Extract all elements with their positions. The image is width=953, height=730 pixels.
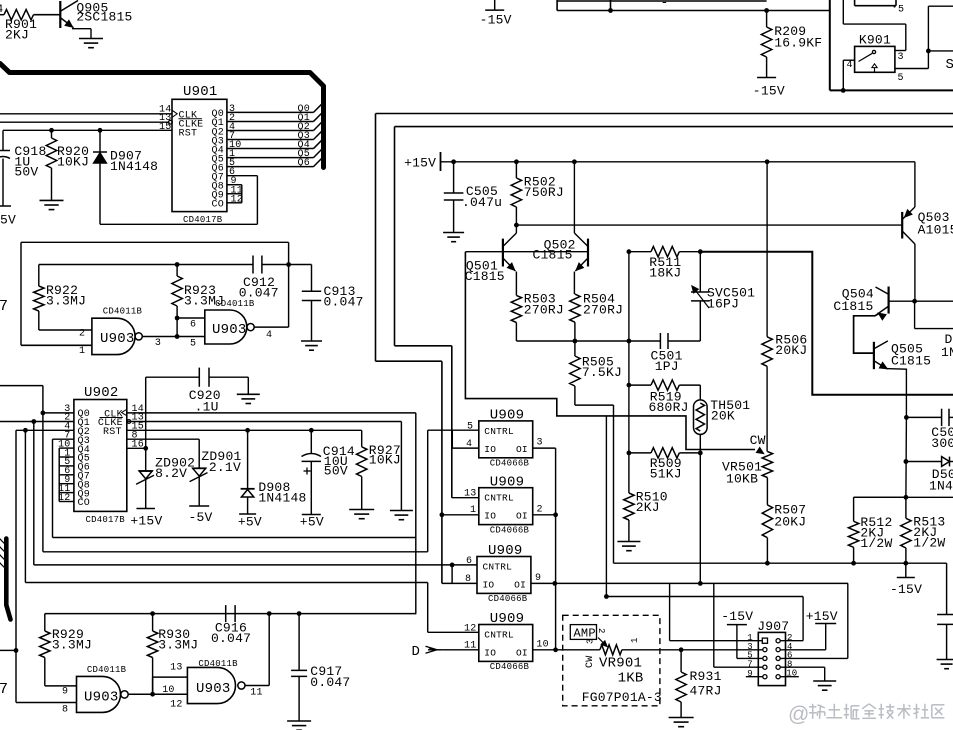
svg-text:CW: CW — [585, 656, 596, 668]
analog switch U909 #1 CD4066B — [479, 421, 533, 458]
svg-text:C1815: C1815 — [891, 354, 931, 369]
varicap SVC501 16PJ — [699, 252, 701, 292]
svg-text:C1815: C1815 — [465, 269, 505, 284]
wire U902 Q1 net from left edge — [0, 421, 74, 423]
svg-text:VR901: VR901 — [599, 656, 642, 672]
wire border net branch to J907 pin2 — [605, 416, 607, 597]
wire U903c output pin10 to U903d — [128, 693, 187, 695]
dashed module box FG07P01A-3 — [563, 615, 660, 706]
thick bus bottom-left with taps — [6, 539, 10, 620]
svg-text:CD4066B: CD4066B — [490, 459, 530, 469]
svg-text:U903: U903 — [84, 690, 119, 706]
wire TH501 R509 node down to pin9 row — [699, 453, 701, 584]
wire -15V rail bottom — [614, 562, 947, 564]
analog switch U909 #4 CD4066B — [479, 625, 533, 662]
wire U902 Q2 net — [0, 649, 16, 651]
transistor Q504 C1815 — [887, 287, 889, 314]
ground for C505 — [443, 232, 464, 234]
svg-text:Q6: Q6 — [298, 158, 310, 169]
svg-text:9: 9 — [535, 573, 541, 584]
svg-text:CNTRL: CNTRL — [484, 493, 514, 504]
wire K901 pin3 — [895, 50, 906, 52]
svg-text:K901: K901 — [859, 33, 891, 48]
svg-text:8: 8 — [62, 705, 68, 716]
wire U903b feedback top — [21, 241, 289, 243]
wire U903a pin1 — [21, 344, 92, 346]
svg-text:-5V: -5V — [189, 510, 213, 525]
svg-text:C1815: C1815 — [833, 299, 873, 314]
svg-text:CO: CO — [78, 498, 90, 509]
svg-text:+5V: +5V — [238, 515, 262, 530]
svg-text:OI: OI — [516, 444, 528, 455]
svg-text:13: 13 — [464, 489, 476, 500]
svg-text:9: 9 — [747, 669, 753, 679]
svg-text:1: 1 — [470, 505, 476, 516]
wire U903d pin13 stub — [152, 677, 154, 694]
svg-text:3: 3 — [586, 638, 596, 644]
wire U909#2 pin13 CNTRL — [452, 497, 479, 499]
svg-text:0.047: 0.047 — [310, 675, 350, 690]
resistor R507 20KJ — [766, 478, 768, 505]
svg-text:CW: CW — [750, 433, 766, 448]
relay K901 box — [855, 46, 895, 72]
svg-text:U909: U909 — [490, 474, 525, 490]
svg-text:1N41: 1N41 — [929, 479, 953, 494]
svg-text:1N4148: 1N4148 — [110, 159, 158, 174]
svg-text:11: 11 — [250, 688, 262, 699]
wire U909#3 pin8 IO — [442, 582, 477, 584]
wire U902 RST pin15 row — [127, 429, 362, 431]
svg-text:12: 12 — [170, 700, 182, 711]
resistor R512 2KJ 1/2W — [853, 497, 855, 521]
wire U909#4 pin11 IO — [442, 649, 479, 651]
ground for R931 — [669, 717, 694, 719]
svg-text:CNTRL: CNTRL — [483, 562, 513, 573]
thick wire bus Q0-Q6 top-left — [0, 64, 324, 168]
svg-text:FG07P01A-3: FG07P01A-3 — [582, 690, 662, 705]
supply -5V for C918 — [0, 205, 11, 207]
svg-text:2: 2 — [537, 505, 543, 516]
wire U903d output pin11 — [245, 685, 269, 687]
capacitor C920 .1U — [145, 377, 147, 448]
wire U909#1 pin4 IO stub — [451, 430, 453, 448]
ground bottom right corner — [937, 659, 953, 661]
svg-text:IO: IO — [484, 511, 496, 522]
U901 pins 9 11 12 tied — [227, 184, 242, 186]
svg-text:50V: 50V — [14, 165, 38, 180]
wire U909#1 pin3 OI to bus — [533, 447, 556, 449]
transistor Q505 C1815 — [873, 342, 875, 369]
svg-text:CD4066B: CD4066B — [490, 662, 530, 672]
ground for Q905 — [79, 38, 103, 40]
wire J907 pin8 to ground — [780, 666, 825, 668]
svg-text:3: 3 — [155, 338, 161, 349]
wire U902 Q0 net from left edge — [0, 385, 43, 387]
wire K901 pin4 — [843, 59, 854, 61]
NAND gate U903b CD4011B — [205, 310, 247, 344]
resistor R901 — [0, 14, 4, 16]
wire Q505 emitter node down — [905, 417, 908, 497]
svg-text:750RJ: 750RJ — [524, 185, 564, 200]
svg-text:OI: OI — [514, 580, 526, 591]
svg-text:CD4017B: CD4017B — [86, 515, 126, 525]
svg-text:3.3MJ: 3.3MJ — [46, 293, 86, 308]
wire U909#2 pin2 OI — [533, 514, 556, 516]
supply +5V under D908 — [239, 513, 256, 515]
wire U902 CLK pin14 to oscillator — [127, 412, 416, 414]
U901 pin Q7/6 loop wire — [227, 175, 258, 177]
wire U903b output pin4 — [254, 326, 288, 328]
svg-text:1/2W: 1/2W — [913, 536, 945, 551]
svg-text:2SC1815: 2SC1815 — [76, 9, 132, 24]
wire K901 pin5 — [895, 68, 929, 70]
svg-text:1N: 1N — [941, 345, 953, 360]
svg-text:0.047: 0.047 — [324, 294, 364, 309]
svg-text:7.5KJ: 7.5KJ — [582, 365, 622, 380]
svg-text:CD4066B: CD4066B — [490, 525, 530, 535]
wire U903c pin8 from left — [16, 702, 77, 704]
wire U902 CLKE pin13 to ground — [127, 421, 402, 423]
IC U902 CD4017B — [74, 400, 127, 512]
svg-text:3: 3 — [537, 438, 543, 449]
svg-text:1PJ: 1PJ — [655, 359, 679, 374]
U901 pin CLK 14 — [0, 113, 172, 115]
svg-text:U902: U902 — [84, 385, 119, 401]
capacitor C503 — [904, 415, 909, 420]
thermistor TH501 20K — [694, 400, 708, 435]
NAND gate U903a CD4011B — [92, 318, 135, 354]
ground for R927 — [349, 509, 374, 511]
resistor R510 2KJ — [628, 453, 630, 493]
VR901 wiper arrow — [598, 638, 606, 646]
svg-text:.047u: .047u — [462, 195, 502, 210]
wire net-B inner border top — [395, 126, 953, 128]
svg-text:8: 8 — [465, 574, 471, 585]
relay above K901 partial box — [854, 0, 856, 6]
svg-text:300: 300 — [931, 436, 953, 451]
svg-text:2: 2 — [79, 328, 85, 339]
svg-text:CNTRL: CNTRL — [484, 426, 514, 437]
svg-text:OI: OI — [516, 648, 528, 659]
potentiometer VR901 1KB — [600, 645, 622, 655]
svg-text:4: 4 — [847, 60, 853, 71]
svg-text:3: 3 — [898, 52, 904, 63]
svg-text:270RJ: 270RJ — [524, 302, 564, 317]
ground for R920 — [40, 199, 64, 201]
capacitor C912 0.047 — [252, 256, 254, 274]
wire U903b pin6 — [177, 317, 205, 319]
wire J907 pin5 from -15V — [736, 625, 738, 659]
wire U902 pin8 row — [127, 438, 199, 440]
NAND gate U903d CD4011B — [187, 667, 235, 703]
resistor R927 10KJ — [361, 430, 363, 447]
diode D501 right edge — [904, 459, 909, 464]
svg-text:CD4011B: CD4011B — [87, 665, 127, 675]
svg-text:U903: U903 — [100, 331, 135, 347]
svg-text:16.9KF: 16.9KF — [774, 36, 822, 51]
ground for R510 — [617, 541, 640, 543]
svg-text:1N4148: 1N4148 — [258, 491, 306, 506]
svg-text:-15V: -15V — [753, 84, 785, 99]
svg-text:IO: IO — [483, 580, 495, 591]
svg-text:3.3MJ: 3.3MJ — [52, 637, 92, 652]
zener diode ZD902 8.2V — [145, 448, 147, 471]
wire R502 to Q503 base — [516, 224, 902, 226]
wire Q501 base border net — [465, 252, 755, 450]
svg-text:10: 10 — [536, 640, 548, 651]
svg-text:CD4011B: CD4011B — [198, 659, 238, 669]
svg-text:CD4066B: CD4066B — [488, 594, 528, 604]
svg-text:18KJ: 18KJ — [649, 266, 681, 281]
svg-text:A1015: A1015 — [918, 223, 953, 238]
svg-text:6: 6 — [466, 556, 472, 567]
svg-text:OI: OI — [516, 511, 528, 522]
svg-text:CD4011B: CD4011B — [103, 307, 143, 317]
svg-text:12: 12 — [464, 624, 476, 635]
svg-text:1: 1 — [630, 637, 640, 643]
supply +15V under ZD902 — [136, 508, 155, 510]
svg-text:7: 7 — [0, 681, 8, 698]
transistor Q501 C1815 — [502, 239, 504, 267]
wire J907 pin7 — [713, 583, 715, 667]
wire U909#2 pin1 IO — [442, 514, 479, 516]
wire U909#1 pin5 CNTRL — [428, 429, 479, 431]
svg-text:@: @ — [788, 703, 810, 726]
svg-text:+15V: +15V — [806, 609, 838, 624]
svg-text:-: - — [661, 0, 669, 10]
wire U909#3 pin9 OI long to J907 pin6 riser — [531, 582, 848, 584]
svg-text:J907: J907 — [757, 619, 789, 634]
resistor R922 — [38, 265, 40, 287]
NAND gate U903c CD4011B — [77, 676, 121, 712]
svg-text:3.3MJ: 3.3MJ — [158, 637, 198, 652]
svg-text:7: 7 — [0, 298, 8, 315]
svg-text:4: 4 — [0, 4, 4, 16]
wire U902 pins Q4-CO tied stubs — [59, 447, 74, 449]
svg-text:5: 5 — [190, 338, 196, 349]
vertical net x=628.9 — [628, 252, 630, 453]
capacitor C913 0.047 — [311, 265, 313, 292]
ground for C920 — [237, 393, 260, 395]
svg-text:IO: IO — [484, 444, 496, 455]
wire J907 pin4 from +15V — [780, 649, 826, 651]
svg-text:U903: U903 — [196, 681, 231, 697]
resistor R502 750RJ — [515, 162, 517, 178]
resistor R209 16.9KF — [766, 11, 768, 28]
capacitor C914 10U 50V electrolytic — [310, 430, 312, 453]
resistor R920 — [51, 130, 53, 138]
ground for C913 — [301, 340, 322, 342]
svg-text:6: 6 — [190, 320, 196, 331]
svg-text:IO: IO — [484, 648, 496, 659]
svg-text:U909: U909 — [490, 408, 525, 424]
svg-text:-15V: -15V — [721, 609, 753, 624]
svg-text:CNTRL: CNTRL — [484, 630, 514, 641]
svg-text:2.1V: 2.1V — [209, 460, 241, 475]
svg-text:2: 2 — [596, 628, 606, 634]
U901 output wires Q0-Q6 to bus — [227, 111, 314, 113]
svg-text:0.047: 0.047 — [211, 631, 251, 646]
resistor R504 270RJ — [573, 272, 575, 295]
wire J907 pin2 — [780, 640, 803, 642]
supply -15V top middle — [494, 0, 496, 10]
svg-text:RST: RST — [179, 128, 198, 139]
J907 left pin circles — [763, 648, 767, 652]
supply -15V stub — [905, 563, 907, 577]
J907 right pin circles — [776, 639, 780, 643]
svg-text:10: 10 — [162, 685, 174, 696]
zener diode ZD901 2.1V — [198, 439, 200, 468]
J907 pin1 square — [762, 638, 767, 643]
svg-text:1: 1 — [79, 346, 85, 357]
wire K901 pin5 riser to right edge — [927, 6, 929, 68]
wire J907 pin10 stub — [780, 676, 799, 678]
svg-text:5: 5 — [898, 73, 904, 84]
U901 pin RST 15 — [3, 129, 172, 131]
wire U902 Q3 loop — [53, 438, 74, 440]
svg-text:8.2V: 8.2V — [155, 466, 187, 481]
svg-text:5: 5 — [898, 5, 904, 16]
resistor R509 51KJ — [629, 452, 651, 454]
svg-text:4: 4 — [466, 439, 472, 450]
relay enclosure box left — [829, 0, 831, 90]
transistor Q503 A1015 — [901, 212, 903, 239]
capacitor bottom right corner — [946, 563, 948, 614]
svg-text:5: 5 — [467, 422, 473, 433]
connector J907 — [758, 632, 785, 685]
resistor R506 20KJ — [766, 162, 768, 337]
capacitor C917 0.047 — [298, 614, 300, 671]
svg-text:CD4011B: CD4011B — [215, 299, 255, 309]
wire R512 top to node — [854, 496, 906, 498]
svg-text:15: 15 — [159, 122, 171, 133]
potentiometer VR501 10KB — [762, 452, 772, 478]
svg-text:CD4017B: CD4017B — [183, 215, 223, 225]
wire U903a output pin3 — [142, 336, 205, 338]
svg-text:51KJ: 51KJ — [650, 467, 682, 482]
analog switch U909 #3 CD4066B — [477, 557, 531, 594]
resistor R511 18KJ — [629, 251, 651, 253]
capacitor C918 — [2, 130, 4, 150]
wire R922/R923 row — [39, 264, 253, 266]
svg-text:20K: 20K — [711, 409, 735, 424]
svg-text:9: 9 — [62, 687, 68, 698]
svg-text:+15V: +15V — [404, 156, 436, 171]
svg-text:10KJ: 10KJ — [369, 453, 401, 468]
IC U901 CD4017B — [172, 99, 227, 211]
ground for CLKE wire — [390, 510, 413, 512]
ground for J907 pin8 — [813, 680, 836, 682]
svg-text:.1U: .1U — [195, 400, 219, 415]
resistor R923 — [176, 265, 178, 277]
capacitor C501 1PJ — [629, 340, 661, 342]
svg-text:+5V: +5V — [300, 515, 324, 530]
svg-text:680RJ: 680RJ — [649, 400, 689, 415]
wire relay K901 coil net top — [842, 0, 844, 24]
wire U902 pin16 — [127, 447, 146, 449]
wire J907 pin9 stub — [746, 676, 763, 678]
capacitor C916 0.047 inline — [225, 605, 227, 622]
svg-text:C1815: C1815 — [533, 248, 573, 263]
svg-text:11: 11 — [464, 641, 476, 652]
wire R503 R504 junction row — [516, 340, 629, 342]
svg-text:10KJ: 10KJ — [57, 154, 89, 169]
svg-text:4: 4 — [266, 330, 272, 341]
wire feedback path R511 to right edge — [700, 252, 953, 395]
svg-text:U909: U909 — [488, 543, 523, 559]
supply -15V under R209 — [757, 77, 776, 79]
svg-text:U901: U901 — [183, 84, 218, 100]
svg-text:U903: U903 — [212, 322, 247, 338]
svg-text:50V: 50V — [324, 464, 348, 479]
svg-text:20KJ: 20KJ — [775, 343, 807, 358]
svg-text:CO: CO — [212, 200, 224, 211]
supply -5V under ZD901 — [189, 505, 209, 507]
svg-text:10KB: 10KB — [726, 472, 758, 487]
svg-text:16PJ: 16PJ — [707, 297, 739, 312]
wire net-B inner border left — [394, 127, 396, 346]
svg-text:-15V: -15V — [890, 582, 922, 597]
wire net-A outer border left — [375, 114, 377, 362]
supply +15V rail — [440, 152, 442, 171]
supply -15V above J907 — [727, 624, 747, 626]
svg-text:1KB: 1KB — [618, 671, 644, 687]
supply +15V above J907 — [815, 623, 836, 625]
resistor R929 3.3MJ — [44, 614, 46, 631]
capacitor C505 .047u — [453, 162, 455, 193]
wire J907 pin1 — [669, 583, 671, 640]
transistor Q905 — [59, 1, 61, 28]
svg-text:U909: U909 — [490, 611, 525, 627]
svg-text:2KJ: 2KJ — [636, 500, 660, 515]
U901 pin CLKE 13 — [0, 121, 169, 123]
svg-text:-15V: -15V — [480, 13, 512, 28]
relay K901 contacts — [872, 50, 875, 53]
op-amp box bottom edge top area — [557, 0, 767, 2]
diode D907 1N4148 — [99, 130, 101, 152]
svg-text:20KJ: 20KJ — [774, 515, 806, 530]
supply +5V under C914 — [302, 514, 321, 516]
svg-text:D: D — [412, 644, 421, 660]
analog switch U909 #2 CD4066B — [479, 488, 533, 525]
svg-text:2KJ: 2KJ — [5, 28, 29, 43]
resistor R505 7.5KJ — [574, 341, 576, 356]
resistor R503 270RJ — [515, 272, 517, 296]
wire J907 pin6 riser — [780, 657, 848, 659]
svg-text:5V: 5V — [0, 213, 16, 228]
wire U909#4 pin10 OI to VR901 — [533, 649, 600, 651]
svg-text:+15V: +15V — [130, 514, 162, 529]
transistor Q502 C1815 — [587, 239, 589, 267]
svg-text:RST: RST — [103, 427, 122, 438]
resistor R519 680RJ — [629, 384, 651, 386]
svg-text:270RJ: 270RJ — [583, 302, 623, 317]
resistor R930 3.3MJ — [152, 614, 154, 631]
ground for C917 — [287, 720, 311, 722]
svg-text:1/2W: 1/2W — [860, 536, 892, 551]
svg-text:R931: R931 — [690, 669, 722, 684]
resistor R513 2KJ 1/2W — [905, 497, 907, 518]
svg-text:13: 13 — [170, 663, 182, 674]
AMP label box — [570, 625, 596, 640]
wire Q503 collector node — [912, 299, 917, 304]
wire net-A outer border top — [376, 113, 953, 115]
wire J907 pin3 from VR901 — [681, 649, 763, 651]
diode D908 1N4148 — [247, 430, 249, 489]
svg-text:S: S — [946, 57, 953, 73]
svg-text:47RJ: 47RJ — [690, 684, 722, 699]
oscillator cluster top wire — [45, 613, 417, 615]
